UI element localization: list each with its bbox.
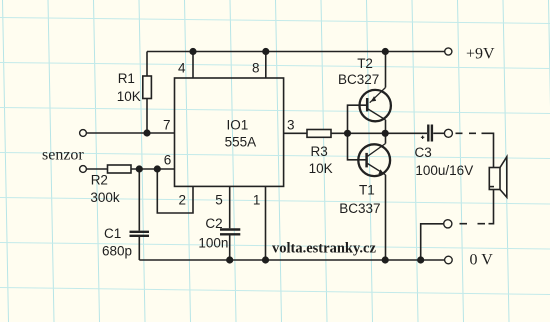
- transistor Q2 (T2 BC327): [360, 88, 391, 122]
- wire pin4: [192, 52, 194, 79]
- svg-text:3: 3: [287, 118, 295, 133]
- svg-text:volta.estranky.cz: volta.estranky.cz: [272, 240, 376, 256]
- terminal 0V: [445, 256, 453, 264]
- junction top rail / pin4: [189, 48, 196, 55]
- svg-text:680p: 680p: [102, 244, 132, 259]
- junction top rail / pin8: [262, 48, 269, 55]
- capacitor C2: [220, 186, 240, 260]
- svg-text:BC327: BC327: [338, 72, 379, 87]
- junction pin6 / pin2 loop: [154, 165, 161, 172]
- svg-text:4: 4: [178, 61, 186, 76]
- junction R1 / pin7 wire: [143, 129, 150, 136]
- junction pin6 / C1: [136, 165, 143, 172]
- junction bottom rail / T1 emitter: [382, 256, 389, 263]
- capacitor C1: [130, 169, 150, 260]
- terminal +9V: [445, 48, 452, 55]
- wire T1 base stub: [348, 133, 367, 160]
- svg-text:8: 8: [252, 61, 260, 76]
- wire T1 emitter to bottom rail: [385, 175, 387, 260]
- resistor R1: [143, 52, 152, 134]
- svg-text:0 V: 0 V: [470, 251, 494, 268]
- wire pin7 input: [87, 132, 175, 134]
- svg-text:IO1: IO1: [227, 117, 249, 132]
- wire dashed to speaker bottom: [460, 223, 486, 225]
- junction bottom rail / pin1: [262, 256, 269, 263]
- wire 0V branch to speaker terminal: [421, 224, 444, 260]
- resistor R3: [284, 130, 348, 138]
- svg-text:1: 1: [253, 192, 261, 207]
- svg-text:senzor: senzor: [42, 146, 84, 163]
- svg-text:100n: 100n: [198, 236, 228, 251]
- junction bottom rail / C2: [226, 256, 233, 263]
- svg-text:100u/16V: 100u/16V: [415, 163, 473, 178]
- wire T2 emitter / T1 collector: [385, 120, 387, 144]
- op-amp U1 body (555 IC IO1): [175, 78, 284, 186]
- svg-text:C2: C2: [205, 216, 222, 231]
- wire top rail +9V: [147, 51, 445, 53]
- wire T2 base stub: [348, 105, 368, 133]
- svg-text:C3: C3: [415, 145, 432, 160]
- svg-text:10K: 10K: [309, 161, 333, 176]
- svg-text:7: 7: [163, 118, 171, 133]
- svg-text:6: 6: [164, 152, 172, 167]
- junction output node: [382, 130, 389, 137]
- capacitor C3: [386, 125, 445, 142]
- svg-text:5: 5: [215, 192, 223, 207]
- svg-text:10K: 10K: [117, 89, 141, 104]
- wire bottom rail 0V: [139, 259, 445, 261]
- svg-text:C1: C1: [104, 226, 121, 241]
- wire T2 collector to rail: [385, 52, 387, 88]
- svg-text:R2: R2: [91, 173, 108, 188]
- junction bottom rail / speaker branch: [417, 256, 424, 263]
- svg-text:R1: R1: [118, 71, 135, 86]
- terminal senzor bottom: [80, 166, 87, 173]
- wire pin8: [265, 52, 267, 79]
- svg-text:+9V: +9V: [466, 46, 495, 63]
- wire pin2 loop: [157, 169, 193, 213]
- terminal senzor top: [80, 130, 87, 137]
- svg-text:555A: 555A: [225, 135, 257, 150]
- terminal speaker return: [444, 220, 452, 228]
- junction R3 / base node: [344, 130, 351, 137]
- svg-text:300k: 300k: [90, 190, 120, 205]
- svg-text:T2: T2: [357, 56, 373, 71]
- terminal output C3: [444, 129, 452, 137]
- svg-text:BC337: BC337: [339, 201, 380, 216]
- speaker LS1: [489, 157, 507, 198]
- junction top rail / T2 collector: [382, 48, 389, 55]
- svg-text:2: 2: [179, 192, 187, 207]
- transistor Q1 (T1 BC337): [358, 144, 390, 177]
- wire speaker bottom return: [489, 190, 494, 224]
- resistor R2: [87, 165, 175, 173]
- svg-text:R3: R3: [311, 144, 328, 159]
- wire pin1: [265, 186, 267, 260]
- svg-text:T1: T1: [359, 182, 375, 197]
- wire base node to output node: [348, 132, 386, 134]
- wire dashed to speaker top: [456, 132, 477, 134]
